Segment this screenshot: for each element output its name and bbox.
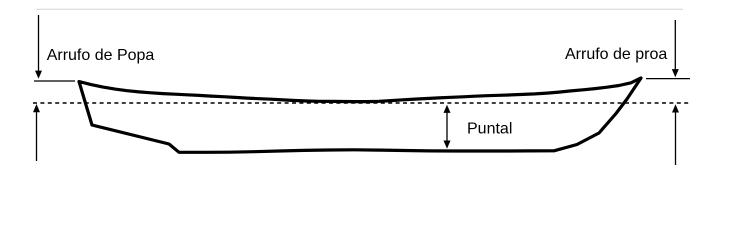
svg-text:Arrufo de proa: Arrufo de proa [565, 46, 667, 63]
svg-text:Arrufo de Popa: Arrufo de Popa [47, 47, 155, 64]
svg-text:Puntal: Puntal [467, 120, 512, 137]
